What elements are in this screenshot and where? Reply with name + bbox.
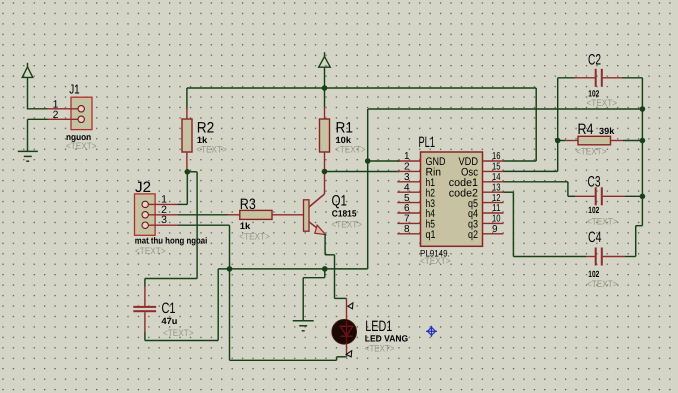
- R1 labels: [335, 119, 366, 155]
- wire R2 junction down to J2 pin1: [178, 172, 187, 205]
- wire power dot down to R1: [324, 88, 326, 107]
- svg-text:<TEXT>: <TEXT>: [66, 141, 97, 152]
- svg-text:<TEXT>: <TEXT>: [163, 328, 194, 339]
- J1 pin number 2: [53, 109, 59, 121]
- svg-text:LED1: LED1: [365, 318, 392, 335]
- C4 labels: [587, 229, 618, 290]
- Q1 labels: [332, 193, 363, 231]
- svg-text:<TEXT>: <TEXT>: [332, 220, 363, 231]
- wire horizontal y109 to right bus: [368, 108, 643, 110]
- svg-text:mat thu hong ngoai: mat thu hong ngoai: [135, 236, 208, 246]
- svg-text:8: 8: [404, 224, 410, 235]
- svg-text:<TEXT>: <TEXT>: [587, 216, 618, 227]
- svg-text:10: 10: [492, 214, 501, 225]
- J1 labels: [66, 82, 97, 153]
- svg-text:<TEXT>: <TEXT>: [239, 231, 270, 242]
- svg-text:R4: R4: [578, 121, 594, 138]
- J2 labels: [135, 179, 208, 257]
- PL1 pin 15 (Osc): [461, 162, 504, 179]
- wire Osc pin15 to C2/R4 left: [504, 78, 558, 172]
- svg-text:7: 7: [404, 214, 410, 225]
- svg-text:5: 5: [404, 193, 410, 204]
- resistor R1: [320, 107, 330, 172]
- LED1 labels: [365, 318, 408, 355]
- capacitor C3: [575, 187, 642, 205]
- C3 labels: [587, 173, 618, 227]
- svg-text:Q1: Q1: [332, 193, 348, 210]
- PL1 pin 1 (GND): [397, 151, 445, 168]
- ground (left): [18, 151, 38, 161]
- svg-text:C1: C1: [162, 300, 176, 317]
- svg-text:11: 11: [492, 203, 501, 214]
- svg-text:47u: 47u: [162, 316, 178, 326]
- wire J2 pin2 to R3: [178, 214, 228, 216]
- LED1: [332, 298, 357, 356]
- wire top bus down to R2: [186, 88, 188, 110]
- C2 labels: [587, 52, 618, 110]
- J2 pin number 3: [161, 214, 167, 226]
- svg-text:R1: R1: [336, 119, 354, 136]
- svg-text:<TEXT>: <TEXT>: [365, 344, 395, 355]
- svg-text:C2: C2: [588, 52, 601, 69]
- svg-text:C3: C3: [588, 173, 601, 190]
- J1 pin number 1: [53, 98, 59, 110]
- transistor Q1: [304, 172, 326, 235]
- svg-text:PL1: PL1: [419, 134, 436, 151]
- svg-text:102: 102: [588, 88, 599, 98]
- LED1 arrow bottom: [346, 351, 352, 357]
- PL1 pin 2 (Rin): [397, 162, 441, 179]
- PL1 pin 13 (code2): [449, 182, 504, 199]
- capacitor C2: [558, 69, 643, 87]
- svg-text:R2: R2: [197, 119, 215, 136]
- svg-text:3: 3: [161, 214, 167, 226]
- junction dot emitter/ground bus: [322, 266, 328, 272]
- J2 pin number 2: [161, 204, 167, 216]
- J2 pin number 1: [161, 193, 167, 205]
- svg-text:2: 2: [53, 109, 59, 121]
- wire J1 pin2 to ground: [28, 119, 48, 151]
- wire ground bus left branch down to C1 bottom: [145, 269, 218, 341]
- capacitor C4: [586, 248, 636, 266]
- junction dot R2 bottom: [185, 169, 191, 175]
- PL1 pin 11 (q4): [468, 203, 504, 220]
- svg-text:R3: R3: [240, 196, 256, 213]
- svg-text:15: 15: [492, 162, 501, 173]
- svg-text:2: 2: [404, 162, 410, 173]
- wire vertical bus x368: [367, 109, 369, 269]
- svg-text:q1: q1: [426, 229, 436, 241]
- PL1 pin 5 (h3): [397, 193, 435, 210]
- svg-text:<TEXT>: <TEXT>: [196, 145, 227, 156]
- svg-text:q2: q2: [468, 229, 478, 241]
- wire code1 pin14 to C3 left: [504, 182, 576, 197]
- svg-text:16: 16: [492, 151, 501, 162]
- svg-text:<TEXT>: <TEXT>: [587, 98, 618, 109]
- PL1 pin 7 (h5): [397, 214, 435, 231]
- PL1 pin 16 (VDD): [459, 151, 504, 168]
- svg-text:6: 6: [404, 203, 410, 214]
- wire ground bus horizontal y269: [218, 268, 368, 270]
- svg-text:<TEXT>: <TEXT>: [135, 246, 166, 257]
- svg-text:<TEXT>: <TEXT>: [335, 145, 366, 156]
- PL1 pin 6 (h4): [397, 203, 435, 220]
- resistor R2: [182, 108, 192, 172]
- svg-text:4: 4: [404, 182, 410, 193]
- wire J2 pin3 net down to LED cathode: [230, 269, 347, 360]
- svg-text:39k: 39k: [599, 126, 615, 136]
- wire Q1 emitter down to LED: [325, 234, 346, 298]
- svg-text:J2: J2: [135, 179, 151, 196]
- wire J2 pin3 right and down: [178, 225, 230, 269]
- connector J1: [48, 97, 93, 129]
- R4 labels: [576, 121, 615, 158]
- PL1 labels: [419, 134, 451, 267]
- ground (middle): [293, 321, 314, 331]
- svg-text:<TEXT>: <TEXT>: [576, 146, 607, 157]
- R2 labels: [196, 119, 227, 155]
- junction dot right bus / R4: [640, 138, 646, 144]
- svg-text:14: 14: [492, 172, 501, 183]
- junction dot GND pin1: [365, 158, 371, 164]
- wire top bus y88: [187, 87, 536, 89]
- svg-text:3: 3: [404, 172, 410, 183]
- junction dot right bus / C3: [640, 194, 646, 200]
- wire right bus x642: [641, 78, 643, 226]
- wire GND pin1 to vertical bus: [368, 160, 400, 162]
- capacitor C1: [133, 287, 156, 333]
- wire Rin: junction to chip pin2: [325, 171, 400, 173]
- svg-text:9: 9: [492, 224, 498, 235]
- wire C4 right up to right bus: [636, 226, 643, 257]
- junction dot R4 left: [555, 138, 561, 144]
- PL1 pin 9 (q2): [468, 224, 504, 241]
- svg-text:102: 102: [588, 269, 599, 279]
- svg-text:<TEXT>: <TEXT>: [420, 256, 451, 267]
- svg-text:102: 102: [588, 205, 599, 215]
- power symbol VCC (top middle): [319, 52, 331, 88]
- wire code2 pin13 to C4 left: [504, 192, 587, 256]
- junction dot at power/R1 top: [322, 85, 328, 91]
- wire R2 junction right and down to C1 top: [145, 172, 197, 287]
- resistor R3: [228, 210, 304, 219]
- wire power to J1 pin1: [28, 77, 48, 109]
- svg-text:<TEXT>: <TEXT>: [587, 279, 618, 290]
- svg-text:C1815: C1815: [332, 208, 357, 218]
- PL1 pin 12 (q5): [468, 193, 504, 210]
- PL1 pin 4 (h2): [397, 182, 435, 199]
- svg-text:LED VANG: LED VANG: [365, 334, 408, 344]
- PL1 pin 14 (code1): [449, 172, 504, 189]
- junction dot right bus / y109: [640, 106, 646, 112]
- resistor R4: [558, 136, 643, 145]
- wire VDD pin16 to top bus: [504, 88, 537, 161]
- power symbol VCC (left): [22, 63, 33, 78]
- svg-text:13: 13: [492, 182, 501, 193]
- PL1 pin 8 (q1): [397, 224, 435, 241]
- junction dot R1 bottom / Rin: [322, 169, 328, 175]
- svg-text:1: 1: [404, 151, 410, 162]
- svg-text:12: 12: [492, 193, 501, 204]
- junction dot J2pin3/ground bus: [227, 266, 233, 272]
- PL1 pin 10 (q3): [468, 214, 504, 231]
- IC U PL1 body: [421, 152, 483, 246]
- wire ground jog to ground symbol: [303, 269, 325, 321]
- LED1 arrow top: [348, 303, 353, 309]
- svg-text:1k: 1k: [240, 221, 252, 231]
- C1 labels: [162, 300, 194, 339]
- R3 labels: [239, 196, 270, 243]
- PL1 pin 3 (h1): [397, 172, 435, 189]
- svg-text:J1: J1: [69, 82, 80, 97]
- connector J2: [135, 194, 179, 235]
- blue origin marker: [426, 326, 437, 337]
- svg-text:C4: C4: [588, 229, 602, 246]
